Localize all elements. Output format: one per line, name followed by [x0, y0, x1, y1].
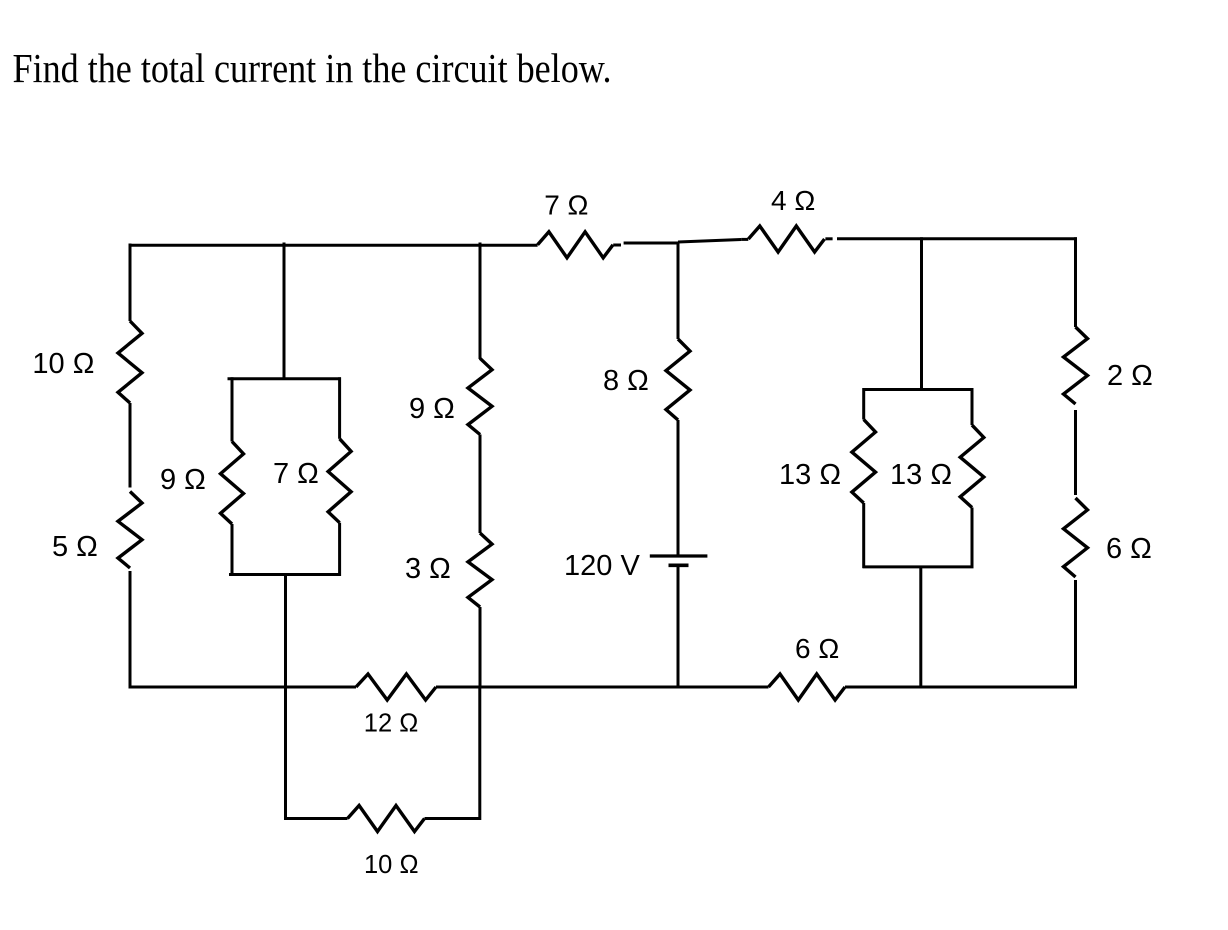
wire top feed to 9Ω∥7Ω box: [283, 243, 286, 380]
svg-text:13 Ω: 13 Ω: [779, 459, 841, 491]
resistor 13Ω (in box2 right): [960, 425, 984, 507]
wire box2 left lower stub: [862, 503, 865, 568]
resistor 10Ω (left branch): [118, 321, 142, 403]
svg-text:4 Ω: 4 Ω: [771, 185, 815, 216]
resistor 13Ω (in box2 left): [852, 420, 876, 504]
resistor 6Ω (right branch): [1064, 498, 1088, 577]
wire branch4 upper: [677, 242, 680, 340]
svg-text:Find the total current in the: Find the total current in the circuit be…: [13, 45, 612, 91]
svg-text:12 Ω: 12 Ω: [364, 710, 419, 738]
svg-text:8 Ω: 8 Ω: [603, 365, 649, 397]
resistor 6Ω (bottom horizontal): [769, 674, 846, 700]
svg-text:13 Ω: 13 Ω: [890, 459, 952, 491]
resistor 2Ω (right branch): [1064, 327, 1088, 404]
svg-text:9 Ω: 9 Ω: [160, 464, 206, 496]
wire box2 right upper stub: [971, 388, 974, 425]
svg-text:3 Ω: 3 Ω: [405, 553, 451, 585]
svg-text:2 Ω: 2 Ω: [1107, 360, 1153, 392]
wire top-left segment: [129, 244, 538, 247]
wire right vertical middle: [1074, 410, 1077, 495]
svg-text:7 Ω: 7 Ω: [544, 189, 588, 220]
battery 120V short plate (−): [669, 563, 689, 567]
wire bottom feed from box1 through bottom rail: [284, 575, 287, 820]
wire branch3 middle: [479, 435, 482, 534]
resistor 9Ω (in box1 left): [221, 442, 244, 525]
wire left vertical middle: [129, 403, 132, 488]
wire stub after 4Ω: [825, 237, 832, 240]
resistor 7Ω (in box1 right): [328, 439, 351, 523]
wire box2 top edge: [863, 388, 974, 391]
wire box2 right lower stub: [971, 508, 974, 569]
resistor 7Ω (top horizontal): [538, 232, 613, 258]
wire box1 top edge: [228, 377, 342, 380]
wire branch4 between 8Ω and battery: [677, 420, 680, 556]
wire bottom feed from box2: [919, 567, 922, 689]
wire branch4 lower: [677, 567, 680, 689]
wire box2 bottom edge: [863, 565, 974, 568]
svg-text:10 Ω: 10 Ω: [364, 851, 419, 879]
svg-text:7 Ω: 7 Ω: [273, 458, 319, 490]
wire bottom-right segment: [845, 686, 1077, 689]
battery 120V long plate (+): [650, 554, 708, 557]
svg-text:10 Ω: 10 Ω: [32, 348, 94, 380]
wire stub before 4Ω: [741, 238, 748, 241]
wire box1 left upper stub: [231, 377, 234, 441]
wire top-right segment: [837, 237, 1077, 240]
resistor 9Ω (branch3): [468, 358, 492, 434]
wire box1 right upper stub: [338, 377, 341, 439]
wire branch3 lower: [479, 607, 482, 689]
resistor 4Ω (top horizontal): [748, 226, 824, 252]
svg-text:6 Ω: 6 Ω: [795, 633, 839, 664]
svg-text:120 V: 120 V: [564, 550, 640, 582]
wire box1 left lower stub: [231, 524, 234, 576]
svg-text:5 Ω: 5 Ω: [52, 531, 98, 563]
resistor 5Ω (left branch): [118, 492, 142, 569]
wire lower loop left segment: [284, 817, 348, 820]
wire bottom-left segment: [129, 686, 357, 689]
wire top feed to 13Ω∥13Ω box: [920, 237, 923, 390]
wire right vertical lower: [1074, 580, 1077, 689]
wire branch3 lower extension: [478, 687, 481, 820]
wire bottom-middle segment: [436, 686, 769, 689]
resistor 10Ω (lower loop): [348, 806, 425, 832]
wire box1 bottom edge: [229, 573, 341, 576]
wire stub after 7Ω: [613, 244, 621, 247]
wire box2 left upper stub: [862, 388, 865, 420]
wire box1 right lower stub: [338, 523, 341, 576]
wire branch3 upper: [479, 243, 482, 360]
wire node B to 4Ω: [678, 240, 741, 243]
wire right vertical upper: [1074, 237, 1077, 327]
wire between 7Ω and node B: [624, 242, 679, 245]
wire left vertical upper: [129, 244, 132, 322]
svg-text:9 Ω: 9 Ω: [409, 393, 455, 425]
resistor 8Ω (branch4): [666, 339, 690, 420]
wire lower loop right segment: [425, 817, 480, 820]
resistor 3Ω (branch3): [468, 533, 492, 607]
wire left vertical lower: [129, 571, 132, 689]
svg-text:6 Ω: 6 Ω: [1106, 533, 1152, 565]
resistor 12Ω (bottom horizontal): [356, 674, 436, 700]
